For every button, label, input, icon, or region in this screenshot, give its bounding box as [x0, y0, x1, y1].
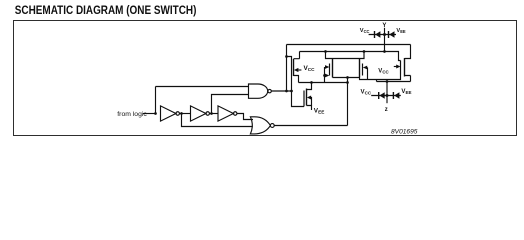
diode clamp row at Y [369, 34, 396, 36]
wire top rail drop to Q5 drain [405, 45, 411, 59]
svg-text:VEE: VEE [396, 28, 406, 34]
node NOR column at gate frame [346, 76, 349, 79]
wire to NAND input A [156, 86, 249, 88]
terminal Z lead [386, 82, 388, 104]
transmission gate frame [333, 59, 360, 78]
svg-text:VEE: VEE [314, 108, 325, 115]
NOR gate [250, 117, 270, 134]
border frame [14, 21, 517, 136]
transistor Q2 n-channel [307, 83, 312, 90]
wire gate line bottom [360, 75, 401, 80]
wire gate line to Z rail link [376, 80, 378, 82]
node right hanger on rail [363, 50, 366, 53]
node Z tap [386, 80, 389, 83]
wire to NOR input B [182, 114, 253, 127]
inverter U2 [191, 106, 206, 121]
inverter U3 [218, 106, 233, 121]
diode D2 cathode bar [388, 31, 390, 38]
wire input up [155, 87, 157, 114]
node Q1 gate tap on rail [285, 55, 288, 58]
wire left hanger [326, 52, 333, 59]
svg-text:Y: Y [382, 23, 386, 29]
node Y tap on rail [383, 50, 386, 53]
Q1 channel bar [293, 59, 295, 76]
transistor Q3 t-gate left [329, 64, 331, 76]
wire U1 to U2 [180, 113, 191, 115]
wire top rail [287, 44, 411, 46]
Q1 bulk arrow [294, 68, 299, 72]
transistor Q4 t-gate right [362, 64, 364, 76]
diode D1 cathode bar [374, 31, 376, 38]
node Z diode junction [386, 94, 389, 97]
svg-text:VCC: VCC [360, 28, 370, 34]
svg-text:VCC: VCC [361, 89, 372, 96]
node NAND out at rail [285, 90, 288, 93]
svg-text:z: z [385, 107, 388, 113]
wire right hanger [360, 52, 365, 59]
diode D2 [389, 31, 394, 37]
wire to NOR input A [237, 114, 253, 120]
svg-text:from logic: from logic [117, 111, 147, 118]
node input junction [154, 112, 157, 115]
terminal Y lead [384, 28, 386, 52]
Q1 source stub to node [294, 76, 299, 83]
diode D4 [394, 92, 399, 98]
Q1 drain stub to top rail [294, 52, 300, 59]
wire Q1 gate lead and shared gate column [287, 57, 305, 107]
node NAND out at gate column [290, 90, 293, 93]
node Q3 bulk tee [323, 74, 326, 77]
wire NAND output [271, 90, 291, 92]
svg-text:SCHEMATIC DIAGRAM (ONE SWITCH): SCHEMATIC DIAGRAM (ONE SWITCH) [15, 4, 197, 17]
diode D3 cathode bar [378, 92, 380, 99]
wire from-logic input [143, 113, 156, 115]
wire U2 to U3 [210, 113, 219, 115]
diode D3 [379, 92, 384, 98]
diode D4 cathode bar [392, 92, 394, 99]
node NOR column at node line [346, 81, 349, 84]
wire left rail [286, 45, 288, 92]
node Y diode junction [383, 33, 386, 36]
wire NOR output [274, 125, 347, 127]
svg-text:VCC: VCC [378, 68, 389, 74]
wire Z rail [377, 81, 411, 83]
svg-text:8V01695: 8V01695 [391, 129, 418, 136]
svg-text:VCC: VCC [304, 65, 316, 72]
svg-text:VEE: VEE [401, 88, 411, 95]
node after U2 [210, 112, 213, 115]
wire NOR output rise [347, 78, 349, 126]
wire level-shift node line [299, 82, 348, 84]
transistor Q5 right p-channel [404, 58, 406, 77]
node Q2 drain tap [310, 81, 313, 84]
inverter U1 [161, 106, 176, 121]
wire to NAND input B [212, 95, 249, 114]
wire inner rail Y node [300, 52, 401, 61]
wire Q5 source drop [405, 76, 411, 82]
node after U1 [180, 112, 183, 115]
NAND gate [249, 84, 268, 98]
node left hanger on rail [324, 50, 327, 53]
diode D1 [375, 31, 380, 37]
diode clamp row at Z [371, 95, 401, 97]
